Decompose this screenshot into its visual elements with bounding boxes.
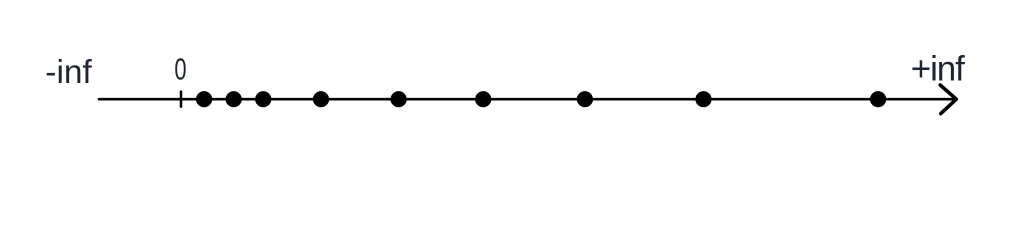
arrowhead : +inf direction	[940, 85, 956, 114]
node F : point 6	[475, 91, 491, 107]
svg-text:+inf: +inf	[911, 50, 965, 89]
node A : point 1	[196, 91, 212, 107]
svg-text:0: 0	[174, 52, 186, 86]
node C : point 3	[255, 91, 271, 107]
node D : point 4	[313, 91, 329, 107]
node G : point 7	[577, 91, 593, 107]
node E : point 5	[391, 91, 407, 107]
node H : point 8	[695, 91, 711, 107]
node B : point 2	[226, 91, 242, 107]
node I : point 9	[870, 91, 886, 107]
svg-text:-inf: -inf	[45, 54, 92, 91]
wire : main number line axis	[99, 98, 954, 101]
node 0 : tick mark at origin	[180, 92, 183, 107]
